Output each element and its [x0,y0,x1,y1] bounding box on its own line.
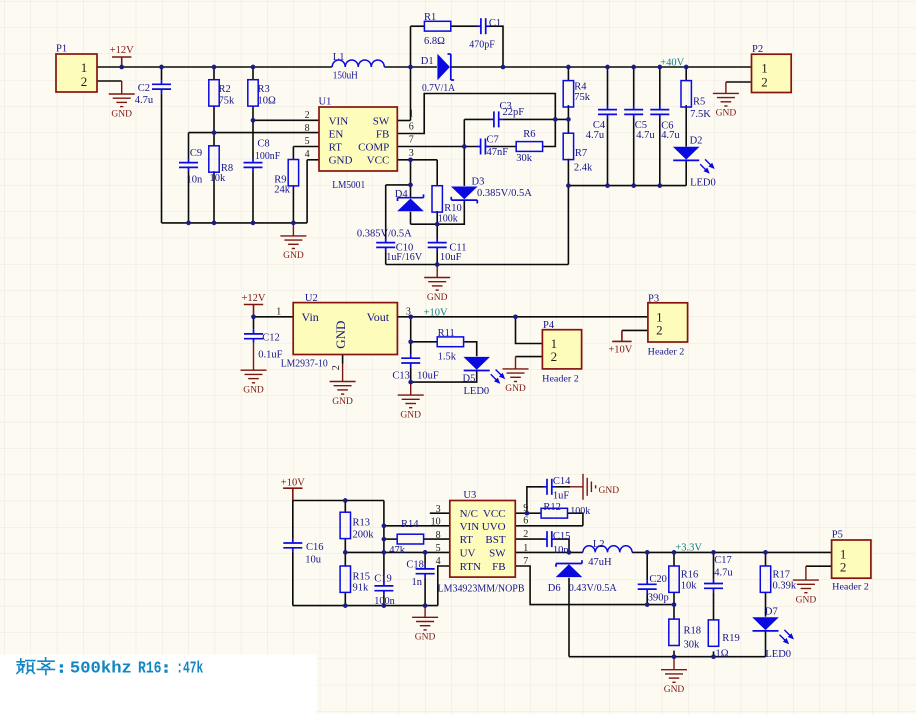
svg-text:24k: 24k [274,184,291,195]
svg-text:91k: 91k [353,582,370,593]
svg-text:0.39k: 0.39k [773,581,797,592]
inductor L2 [583,546,632,553]
diode D3 [451,187,478,200]
wire R3 to VIN node [252,106,254,158]
svg-text:R12: R12 [543,502,561,513]
wire VIN pin2 [253,119,319,121]
wire C17 top [713,552,715,579]
svg-text:RT: RT [460,534,474,546]
wire D1 cathode to C1 drop [451,66,503,68]
wire VCC to C14 [527,487,543,513]
svg-text:P3: P3 [648,294,659,305]
wire R18 bottom [673,651,675,657]
wire P2 pin2 [726,81,752,83]
wire R5 to D2 [685,105,687,147]
svg-text:+10V: +10V [608,345,632,356]
svg-text:LM5001: LM5001 [332,180,365,191]
svg-text:R16: R16 [138,660,162,679]
svg-text:+12V: +12V [110,45,134,56]
svg-text:C16: C16 [306,542,324,553]
svg-text:GND: GND [111,109,132,119]
ground P1 [109,81,135,107]
wire C8 bottom [252,172,254,223]
ground U2 [330,364,356,395]
wire C6 top [659,67,661,106]
wire VIN column [383,501,385,582]
junction dots middle [251,314,256,319]
wire VCC pin9 [515,512,527,514]
svg-text:1: 1 [81,60,88,75]
svg-text:U1: U1 [319,97,332,108]
wire C3 branch down [463,119,465,146]
connector P1 [56,54,97,92]
wire FB pin7 [515,566,674,605]
svg-text:4: 4 [436,556,441,567]
ground P5 [793,566,819,593]
wire L1 to D1 node [384,66,437,68]
wire C1 to rail [489,26,503,67]
svg-text:GND: GND [243,386,264,396]
resistor R5 [681,81,691,107]
svg-text:C19: C19 [374,574,392,585]
wire R13 bottom [344,539,346,566]
svg-text:4.7u: 4.7u [636,130,655,141]
svg-text:2: 2 [81,74,88,89]
wire R5 top [685,67,687,81]
svg-text:D4: D4 [395,189,409,200]
wire RTN pin4 [438,566,450,606]
svg-text:C13: C13 [392,371,410,382]
connector P2 [752,54,792,92]
svg-text:+3.3V: +3.3V [675,543,702,554]
wire D6 bottom [568,578,570,657]
wire R17 top [765,552,767,566]
ground U3 [412,606,438,630]
svg-text:4.7u: 4.7u [586,130,605,141]
wire R6 to FB node [543,119,556,146]
capacitor C1 [477,18,490,34]
diode D4 [397,199,424,212]
svg-text:LED0: LED0 [464,386,490,397]
wire bottom rail U3 [293,605,438,607]
resistor R6 [516,142,542,152]
svg-text:+40V: +40V [660,57,684,68]
resistor R16 [669,566,679,592]
svg-text:FB: FB [492,561,505,573]
svg-text:3: 3 [436,504,441,515]
svg-text:7.5K: 7.5K [690,109,711,120]
wire C5 bottom [633,119,635,186]
svg-text:SW: SW [373,115,390,127]
wire +10V rail [293,500,384,502]
wire C14 to gnd [556,486,570,488]
resistor R8 [209,146,219,172]
ground C12 [241,343,267,383]
svg-text:R6: R6 [523,129,535,140]
svg-text:+10V: +10V [424,308,448,319]
wire P4 pin1 [516,317,543,344]
capacitor C11 [428,239,447,252]
capacitor C14 [543,479,556,495]
svg-text:RTN: RTN [460,561,481,573]
wire pin4 drop [306,160,308,223]
wire C2 to gnd rail [161,93,163,223]
wire C6 bottom [659,119,661,186]
svg-text:Header 2: Header 2 [832,581,869,592]
svg-text:1: 1 [409,109,414,120]
svg-text:P4: P4 [543,320,555,331]
svg-text:R11: R11 [438,328,455,339]
wire C18 bottom [424,578,426,606]
resistor R2 [209,80,219,106]
junction dots top [119,65,124,70]
svg-text:GND: GND [400,410,421,420]
ground P2 [713,82,739,106]
wire D5 cathode [411,370,477,382]
svg-text:100k: 100k [438,213,459,224]
svg-text:6.8Ω: 6.8Ω [424,36,445,47]
resistor R13 [340,512,350,538]
svg-text:1: 1 [276,307,281,318]
wire P3 pin2 [622,329,648,331]
capacitor C6 [650,106,669,119]
svg-text:0.1uF: 0.1uF [258,349,282,360]
wire SW pin1 [397,120,410,122]
wire C12 top [253,317,255,330]
resistor R17 [760,566,770,592]
svg-text:RT: RT [329,141,343,153]
resistor R15 [340,566,350,592]
svg-text:FB: FB [376,128,389,140]
svg-text:VCC: VCC [367,155,390,167]
wire P1 pin2 [97,80,122,82]
svg-text:GND: GND [427,293,448,303]
svg-text:Vin: Vin [302,310,319,324]
svg-text:R7: R7 [575,148,587,159]
regulator U2 LM2937-10 [293,303,397,355]
svg-text:R18: R18 [684,626,702,637]
wire R16-R18 column [673,592,675,619]
capacitor C18 [416,565,435,578]
svg-text:10k: 10k [210,173,227,184]
wire FB pin6 [397,94,555,134]
svg-text:R5: R5 [693,97,705,108]
svg-text:200k: 200k [353,529,375,540]
svg-text:C17: C17 [714,555,732,566]
wire R8 bottom [213,171,215,223]
wire R11 to D5 [464,342,476,357]
svg-text:2: 2 [656,323,663,338]
power port +12V mid [244,305,263,317]
svg-text:LED0: LED0 [690,177,716,188]
svg-text:R2: R2 [219,84,231,95]
wire R1 branch [410,26,412,120]
wire RT to R9 [292,147,294,160]
wire R7 bottom [567,159,569,186]
capacitor C17 [704,579,723,592]
svg-text:R19: R19 [722,633,740,644]
svg-text:0.7V/1A: 0.7V/1A [422,83,455,94]
wire R1 row left [411,25,425,27]
svg-text:6: 6 [523,516,528,527]
wire cap rail [568,185,686,187]
svg-text:C1: C1 [489,18,501,29]
wire C9 drop [188,133,190,159]
svg-text:GND: GND [329,155,353,167]
svg-text:C18: C18 [406,559,424,570]
wire C13 bottom [410,367,412,382]
resistor R11 [437,337,463,347]
wire EN pin8 [189,132,320,134]
svg-text:C8: C8 [257,138,269,149]
svg-text:2: 2 [551,349,558,364]
wire C9 bottom [188,172,190,223]
resistor R19 [708,620,718,646]
wire D7 bottom [765,631,767,657]
connector P3 [648,303,688,342]
op-amp U1 LM5001 [319,107,397,171]
svg-text:VIN: VIN [460,521,480,533]
capacitor C15 [543,531,556,547]
resistor R7 [563,133,573,159]
svg-text:2: 2 [523,529,528,540]
wire R11 left [411,341,438,343]
wire R10 bottom [436,211,438,238]
svg-text:47nF: 47nF [487,147,509,158]
svg-text:4.7u: 4.7u [661,130,680,141]
wire R9 bottom [292,186,294,223]
ground C13 [398,382,424,408]
wire C10 bottom [385,252,387,265]
inductor L1 [332,60,384,67]
wire C7 to R6 [490,146,517,148]
svg-text:30k: 30k [516,153,533,164]
wire D4 anode [410,212,412,225]
svg-text:Header 2: Header 2 [648,347,685,358]
svg-text:U2: U2 [305,293,318,304]
wire R12 left [527,512,541,514]
wire R17 to D7 [765,592,767,617]
svg-text:3: 3 [409,148,414,159]
wire C17 to R19 [713,592,715,620]
wire R7 riser [567,186,569,265]
svg-text:2: 2 [331,365,342,370]
wire +12V to Vin [254,316,294,318]
capacitor C7 [477,139,490,155]
svg-text:L1: L1 [333,52,345,63]
svg-text:GND: GND [599,486,620,496]
ground C14 [570,474,596,500]
svg-text:8: 8 [305,123,310,134]
wire D4 stem [410,185,412,198]
svg-text:P5: P5 [832,530,843,541]
svg-text:7: 7 [523,556,528,567]
wire R3 top [252,67,254,80]
power port +10V bottom [283,488,302,500]
ground P4 [503,357,529,382]
svg-text:500khz: 500khz [70,660,132,679]
wire R12 right [568,513,583,526]
annotation colon and value [60,664,168,673]
capacitor C12 [244,330,263,343]
resistor R18 [669,619,679,645]
wire C13 top [410,342,412,354]
svg-text:D5: D5 [463,373,476,384]
wire U2 pin2 stem [342,355,344,364]
svg-text:C15: C15 [553,531,571,542]
wire gnd rail top circuit [162,222,308,224]
svg-text:2: 2 [840,560,847,575]
svg-text:GND: GND [283,251,304,261]
wire C3 to R4 node [503,118,569,120]
ground bottom circuit [661,657,687,683]
power port +12V [112,57,131,67]
svg-text:10uF: 10uF [440,252,462,263]
svg-text:10k: 10k [681,581,698,592]
LED D2 [673,147,700,160]
wire C2 column [161,67,163,80]
wire C11 bottom [436,252,438,265]
svg-text:R17: R17 [773,570,791,581]
svg-text:47k: 47k [389,545,406,556]
diode D1 [437,54,450,81]
wire R14 left [384,538,397,540]
svg-text:COMP: COMP [358,141,389,153]
svg-text:GND: GND [796,595,817,605]
wire R10 top [436,160,438,186]
svg-text:P2: P2 [752,44,763,55]
svg-text:D2: D2 [690,136,703,147]
svg-text:N/C: N/C [460,508,478,520]
white annotation area [0,655,317,714]
wire D3 cathode [411,200,465,225]
capacitor C5 [624,106,643,119]
svg-text:GND: GND [505,384,526,394]
wire P5 pin2 [806,565,832,567]
capacitor C10 [376,239,395,252]
wire C19 bottom [383,595,385,606]
wire BST pin2 [515,538,543,540]
svg-text:R16: R16 [681,570,699,581]
capacitor C2 [152,80,171,93]
svg-text:8: 8 [436,530,441,541]
svg-text:VCC: VCC [483,508,506,520]
wire NC stub [430,512,450,514]
resistor R12 [541,508,567,518]
wire R2 to EN node [213,106,215,146]
svg-text:LM2937-10: LM2937-10 [281,359,328,370]
svg-text:5: 5 [436,543,441,554]
regulator U3 LM34923 [450,501,516,578]
wire COMP pin7 [397,146,476,148]
wire gnd rail bottom [569,656,766,658]
resistor R9 [288,160,298,186]
svg-text:2: 2 [761,75,768,90]
svg-text:Header 2: Header 2 [542,374,579,385]
svg-text:1: 1 [761,60,768,75]
connector P4 [542,330,581,369]
resistor R3 [248,80,258,106]
wire R14 right [424,538,450,540]
wire P4 pin2 [516,356,543,358]
wire VCC down [410,160,412,185]
svg-text:4: 4 [305,149,310,160]
wire C5 top [633,67,635,106]
svg-text:UVO: UVO [482,521,506,533]
annotation 频率 [17,658,54,675]
svg-text:390p: 390p [648,593,669,604]
svg-text:Vout: Vout [367,310,390,324]
svg-text:10Ω: 10Ω [258,96,277,107]
wire rail to P2 [503,66,752,68]
capacitor C3 [490,111,503,127]
svg-text:30k: 30k [684,640,701,651]
svg-text:R15: R15 [353,571,371,582]
svg-text:UV: UV [460,547,476,559]
wire RT pin5 [293,146,319,148]
svg-text:GND: GND [332,397,353,407]
svg-text:1n: 1n [412,577,423,588]
wire gnd rail mid [386,264,569,266]
power port +10V under P3 [612,330,631,341]
wire SW pin1 [515,551,583,553]
svg-text:R13: R13 [353,518,371,529]
svg-text:470pF: 470pF [469,39,495,50]
svg-text:D6: D6 [548,583,561,594]
diode D6 [556,564,583,577]
svg-text:R4: R4 [574,82,587,93]
svg-text:C2: C2 [138,83,150,94]
svg-text:22pF: 22pF [503,107,525,118]
svg-text:0.385V/0.5A: 0.385V/0.5A [477,188,532,199]
svg-text:P1: P1 [56,44,67,55]
svg-text:+10V: +10V [281,478,305,489]
capacitor C19 [374,582,393,595]
svg-text:BST: BST [485,534,505,546]
svg-text:150uH: 150uH [333,70,358,81]
svg-text:C7: C7 [487,134,499,145]
svg-text:EN: EN [329,128,344,140]
wire main rail [97,66,332,68]
wire R13 top [344,501,346,513]
wire C13 branch [410,317,412,342]
wire C20 top [646,552,648,580]
svg-text:R14: R14 [401,519,419,530]
svg-text:10: 10 [431,517,441,528]
capacitor C8 [244,159,263,172]
svg-text:100k: 100k [570,506,591,517]
wire C20 bottom [646,593,648,604]
svg-text:75k: 75k [574,92,591,103]
wire C16 top [292,501,294,539]
wire R4 top [567,67,569,81]
svg-text:C20: C20 [649,574,667,585]
svg-text:VIN: VIN [329,115,349,127]
svg-text:R1: R1 [424,12,436,23]
capacitor C4 [598,106,617,119]
svg-text:75k: 75k [219,96,236,107]
svg-text:R3: R3 [258,84,270,95]
svg-text:2: 2 [305,110,310,121]
svg-text:1.5k: 1.5k [438,351,457,362]
wire C4 bottom [607,119,609,186]
svg-text:10n: 10n [187,174,204,185]
svg-text:D7: D7 [765,607,778,618]
svg-text:GND: GND [664,685,685,695]
resistor R14 [397,534,423,544]
wire UV pin5 [345,551,450,553]
wire D3 anode drop [463,147,465,186]
